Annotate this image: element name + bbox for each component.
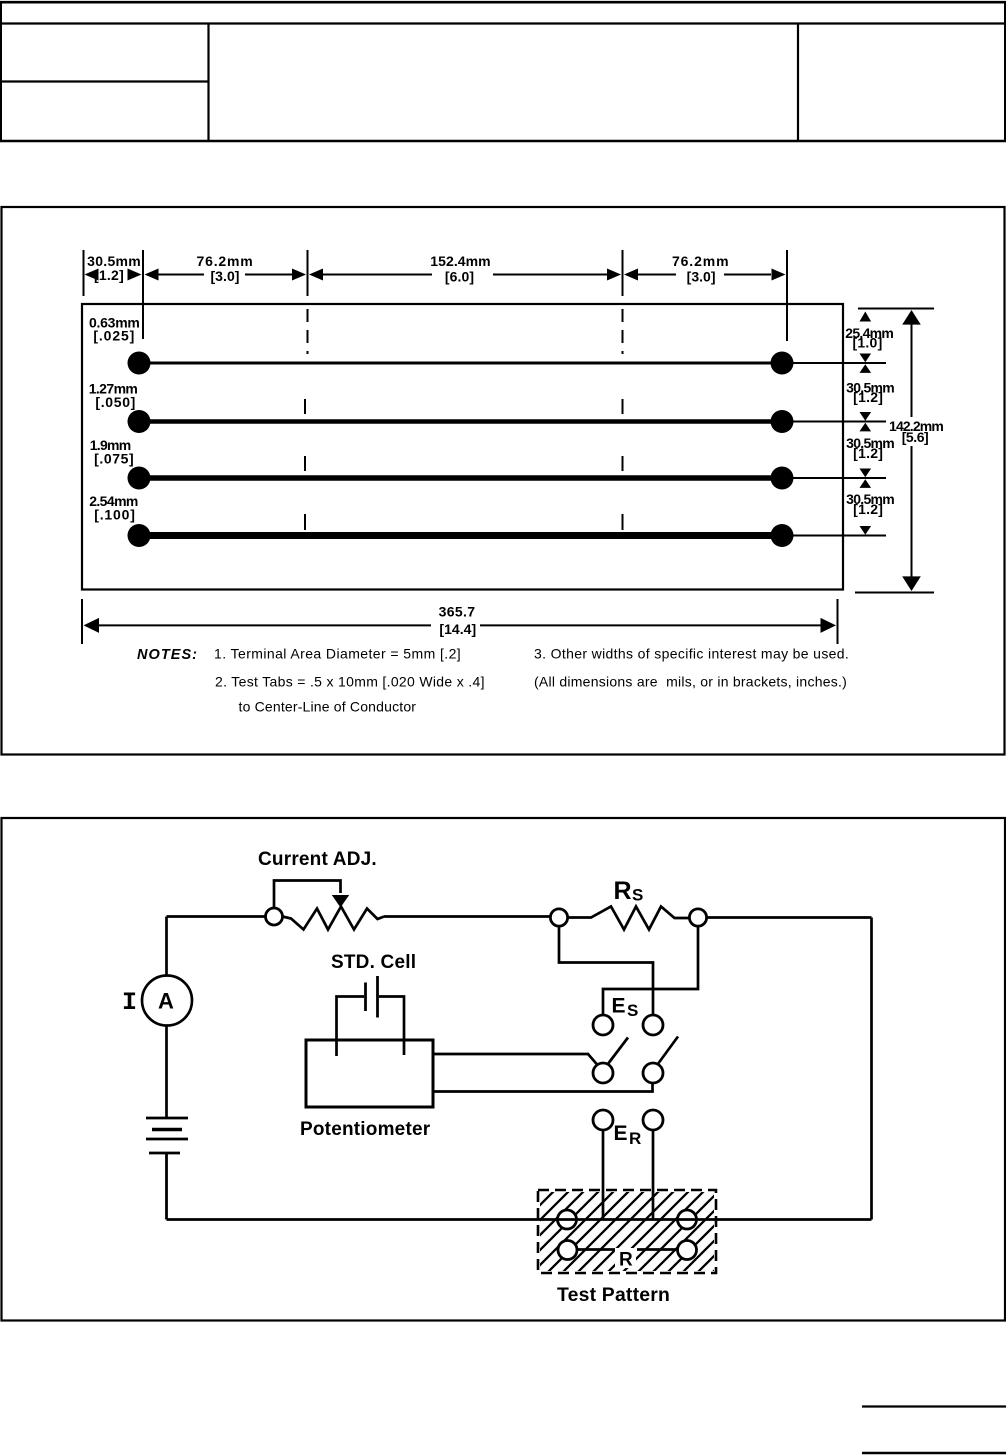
terminal dot conductor3 right — [771, 467, 794, 490]
svg-text:[1.2]: [1.2] — [853, 445, 883, 461]
wire right vertical — [870, 918, 873, 1220]
svg-text:2. Test Tabs = .5 x 10mm [.020: 2. Test Tabs = .5 x 10mm [.020 Wide x .4… — [215, 674, 485, 690]
dim 76.2mm [3.0] arrows — [145, 269, 159, 281]
wire battery down — [165, 1153, 168, 1220]
svg-text:E: E — [612, 995, 626, 1018]
svg-text:[1.2]: [1.2] — [853, 389, 883, 405]
svg-text:3. Other widths of specific in: 3. Other widths of specific interest may… — [534, 646, 849, 662]
table right border — [1004, 1, 1006, 142]
svg-text:1. Terminal Area Diameter = 5m: 1. Terminal Area Diameter = 5mm [.2] — [214, 646, 461, 662]
wiper arrowhead — [332, 895, 349, 908]
svg-text:152.4mm: 152.4mm — [430, 253, 490, 269]
conductor 4 (2.54mm) — [139, 532, 782, 539]
wire Rs to right side — [707, 916, 872, 919]
terminal dot conductor1 left — [128, 352, 151, 375]
table column divider right — [797, 24, 799, 142]
figure 2 border frame — [2, 818, 1006, 1321]
tick above conductor4 left — [304, 514, 306, 530]
conductor 1 (0.63mm) — [139, 362, 782, 365]
svg-text:(All dimensions are mils, or: (All dimensions are mils, or in brackets… — [534, 674, 847, 690]
wire Rs right tap — [603, 926, 698, 1015]
svg-text:76.2mm: 76.2mm — [197, 253, 254, 269]
wire ammeter to battery — [165, 1026, 168, 1118]
table column divider left — [207, 24, 209, 142]
dim 152.4mm [6.0] line segments — [323, 274, 432, 276]
overall height dim line upper — [911, 323, 913, 417]
wire Er right down — [652, 1130, 655, 1220]
wire top left horizontal — [167, 915, 266, 918]
tick above conductor3 left — [304, 456, 306, 471]
arrow up below board top — [860, 312, 872, 322]
conductor 3 (1.9mm) — [139, 475, 782, 481]
terminal dot conductor2 right — [771, 410, 794, 433]
dim 76.2mm [3.0] right line segments — [638, 274, 676, 276]
svg-text:[1.2]: [1.2] — [94, 267, 124, 283]
top dim extension line d solid part — [622, 250, 624, 296]
Er terminal circle right — [643, 1110, 663, 1130]
std cell wire left — [337, 997, 365, 1057]
top dim extension line b — [142, 250, 144, 339]
svg-text:76.2mm: 76.2mm — [672, 253, 730, 269]
svg-text:A: A — [158, 989, 174, 1014]
Es terminal circle left — [593, 1015, 613, 1035]
switch contact circle left — [593, 1063, 613, 1083]
battery plate short 1 — [152, 1128, 182, 1131]
svg-text:[1.2]: [1.2] — [853, 501, 883, 517]
tick above conductor3 right — [622, 456, 624, 471]
top dim extension line c solid part — [307, 250, 309, 296]
right ext line board top — [858, 308, 934, 310]
switch blade right — [658, 1037, 679, 1065]
wire bottom horizontal through test pattern — [167, 1218, 872, 1221]
table top border — [0, 1, 1006, 4]
Er terminal circle left — [593, 1110, 613, 1130]
table left cell split — [0, 80, 209, 82]
bowtie arrows at conductor3 — [860, 469, 872, 478]
svg-text:I: I — [122, 988, 137, 1017]
svg-text:[.100]: [.100] — [94, 507, 136, 523]
svg-text:[3.0]: [3.0] — [687, 269, 716, 285]
bottom dim line — [98, 624, 431, 626]
svg-text:Test Pattern: Test Pattern — [557, 1285, 670, 1306]
test pattern board outline — [82, 304, 843, 590]
wire pot box to switch right — [433, 1084, 653, 1092]
right ext line conductor4 — [793, 535, 886, 537]
terminal dot conductor3 left — [128, 467, 151, 490]
svg-text:R: R — [619, 1250, 633, 1271]
svg-text:Potentiometer: Potentiometer — [300, 1119, 431, 1140]
terminal dot conductor1 right — [771, 352, 794, 375]
dim 152.4mm [6.0] arrows — [309, 269, 323, 281]
std cell wire right — [379, 997, 404, 1056]
test pattern terminal pad top-right — [678, 1210, 697, 1229]
potentiometer box — [306, 1040, 433, 1107]
svg-text:to Center-Line of Conductor: to Center-Line of Conductor — [239, 699, 417, 715]
svg-text:[14.4]: [14.4] — [439, 621, 476, 637]
right ext line conductor2 — [793, 421, 886, 423]
wire pot box to switch left — [433, 1054, 598, 1065]
tick above conductor4 right — [622, 514, 624, 530]
resistor Rs right terminal circle — [689, 909, 706, 926]
wire Rs left tap — [559, 926, 653, 1015]
test pattern terminal pad top-left — [558, 1210, 577, 1229]
std cell plate long — [376, 976, 379, 1018]
resistor R link left segment — [577, 1248, 616, 1251]
tick above conductor2 left — [304, 399, 306, 414]
label R — [615, 1248, 636, 1268]
bowtie arrows at conductor2 — [860, 412, 872, 421]
svg-text:[1.0]: [1.0] — [852, 335, 882, 351]
battery plate long 2 — [146, 1138, 188, 1141]
ammeter circle — [142, 976, 192, 1026]
svg-text:R: R — [614, 877, 632, 905]
conductor 2 (1.27mm) — [139, 419, 782, 424]
dim 76.2mm [3.0] line segments — [158, 274, 204, 276]
svg-text:[5.6]: [5.6] — [902, 429, 929, 445]
switch contact circle right — [643, 1063, 663, 1083]
right ext line board bottom — [855, 592, 934, 594]
terminal dot conductor2 left — [128, 410, 151, 433]
wire pot to Rs — [384, 915, 551, 918]
top dim extension line e — [786, 250, 788, 341]
wire left vertical to ammeter — [165, 917, 168, 977]
resistor Rs left terminal circle — [550, 909, 567, 926]
potentiometer R1 zigzag — [283, 907, 385, 930]
wiper arm — [274, 881, 341, 909]
overall height dim arrow up — [902, 310, 921, 325]
test pattern terminal pad bottom-left — [558, 1241, 577, 1260]
bottom dim arrows — [84, 618, 100, 633]
dim 76.2mm [3.0] right arrows — [624, 269, 638, 281]
resistor Rs zigzag — [568, 907, 690, 930]
bowtie arrows at conductor1 — [860, 354, 872, 363]
svg-text:[.025]: [.025] — [93, 328, 135, 344]
top dim extension line d dashed part — [622, 309, 624, 354]
top dim extension line c dashed part — [307, 309, 309, 354]
arrow down above conductor4 — [860, 526, 872, 535]
svg-text:NOTES:: NOTES: — [137, 647, 198, 663]
tick above conductor2 right — [622, 399, 624, 414]
footer rule upper — [862, 1405, 1006, 1407]
test pattern hatch — [445, 1175, 810, 1285]
overall height dim line lower — [911, 446, 913, 578]
svg-text:[.075]: [.075] — [94, 451, 134, 467]
svg-text:Current ADJ.: Current ADJ. — [258, 849, 377, 870]
table bottom border — [0, 140, 1006, 142]
switch blade left — [608, 1038, 629, 1065]
table left border — [0, 1, 2, 142]
resistor R link right segment — [637, 1248, 678, 1251]
terminal dot conductor4 right — [771, 524, 794, 547]
wire Er left down — [602, 1130, 605, 1220]
footer rule lower — [862, 1452, 1006, 1454]
right ext line conductor3 — [793, 477, 886, 479]
figure 1 border frame — [2, 207, 1005, 755]
Es terminal circle right — [643, 1015, 663, 1035]
svg-text:S: S — [627, 1001, 638, 1020]
battery plate short 2 — [149, 1152, 180, 1155]
svg-text:S: S — [632, 886, 643, 905]
svg-text:[.050]: [.050] — [95, 394, 136, 410]
potentiometer wiper terminal circle — [266, 908, 283, 925]
bottom dim ext line left — [81, 599, 83, 644]
overall height dim arrow down — [902, 576, 921, 591]
svg-text:365.7: 365.7 — [439, 604, 476, 620]
terminal dot conductor4 left — [128, 524, 151, 547]
svg-text:STD. Cell: STD. Cell — [331, 952, 416, 973]
dim 30.5mm [1.2] arrows — [85, 269, 99, 281]
battery plate long 1 — [146, 1117, 188, 1120]
std cell plate short — [364, 983, 367, 1012]
svg-text:[6.0]: [6.0] — [445, 269, 474, 285]
test pattern dashed box — [538, 1190, 716, 1273]
svg-text:[3.0]: [3.0] — [210, 268, 239, 284]
top dim extension line a — [83, 250, 85, 296]
svg-text:E: E — [614, 1122, 628, 1145]
bottom dim ext line right — [837, 599, 839, 644]
table header row divider — [0, 22, 1006, 24]
svg-text:R: R — [629, 1129, 641, 1148]
right ext line conductor1 — [793, 362, 886, 364]
test pattern terminal pad bottom-right — [678, 1241, 697, 1260]
